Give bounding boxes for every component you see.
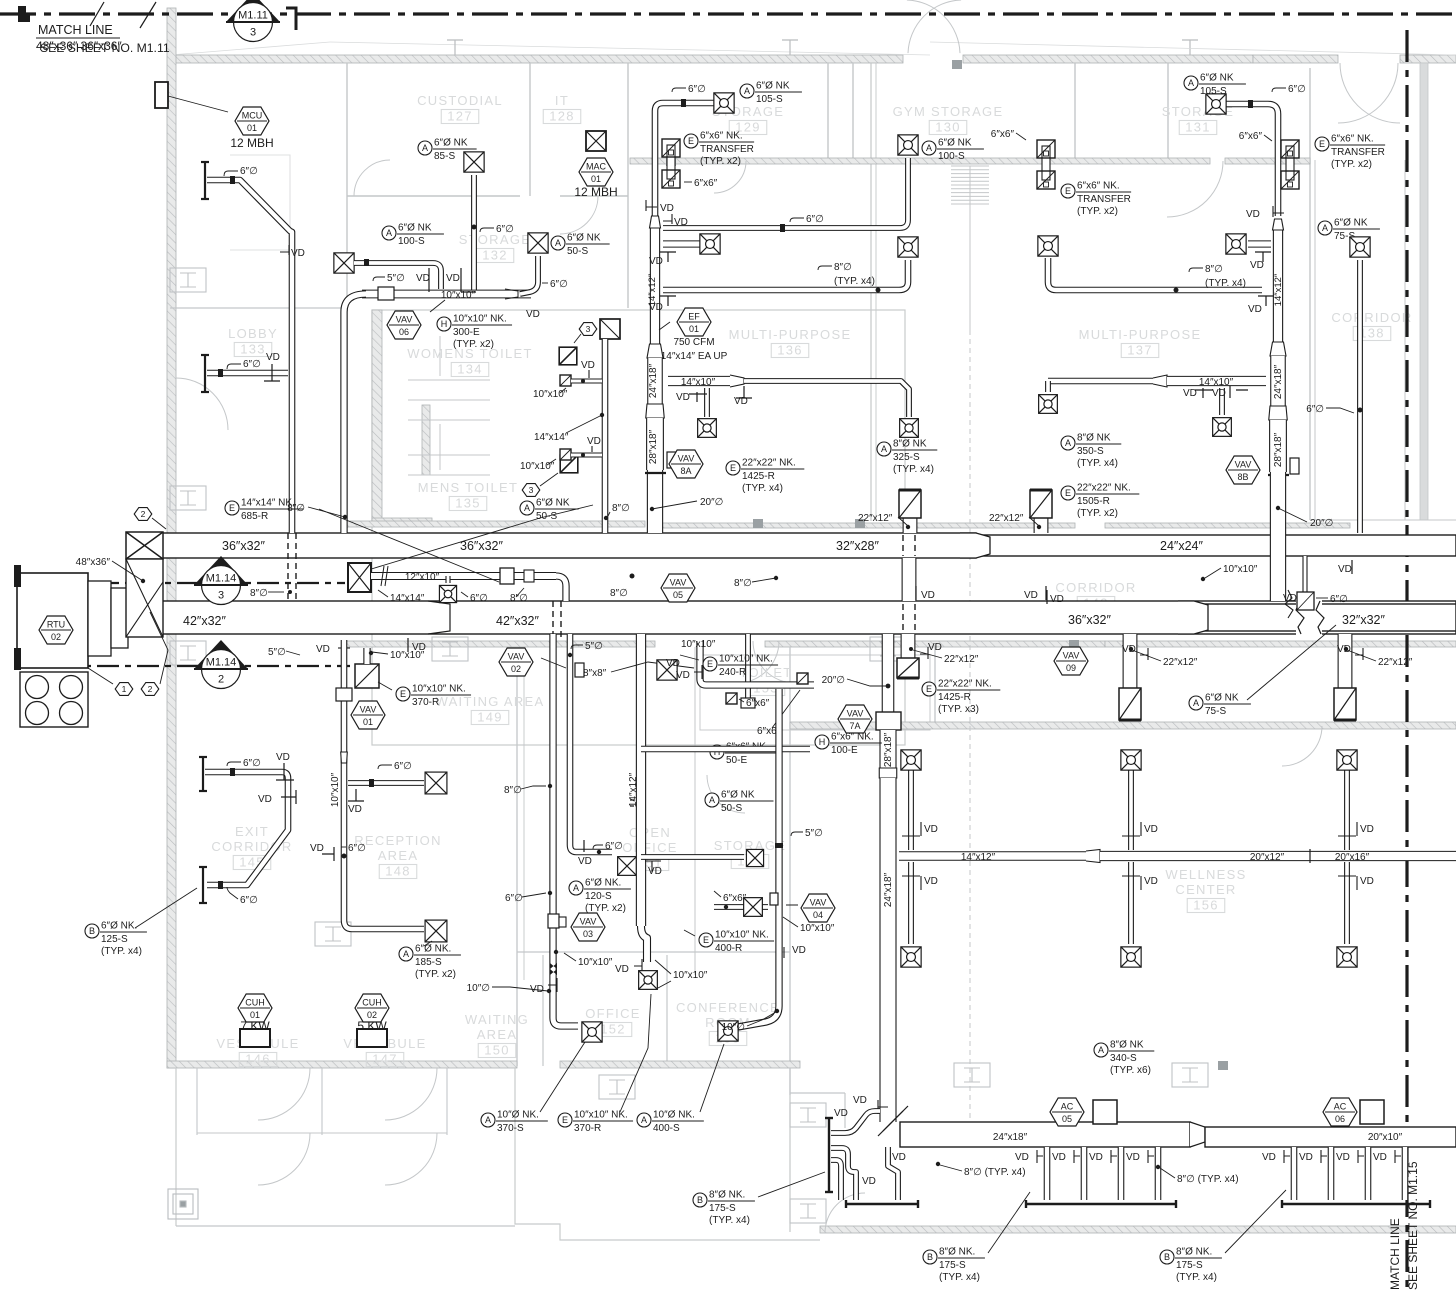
- svg-text:VD: VD: [1024, 590, 1038, 601]
- svg-text:10″∅: 10″∅: [722, 1022, 745, 1033]
- room waiting area 149: [435, 694, 544, 725]
- svg-text:VD: VD: [792, 945, 806, 956]
- svg-text:VD: VD: [666, 658, 680, 669]
- VD cluster c: [862, 1176, 876, 1187]
- svg-text:8″Ø NK: 8″Ø NK: [1110, 1040, 1144, 1051]
- svg-text:VD: VD: [1373, 1152, 1387, 1163]
- svg-text:100-S: 100-S: [398, 236, 425, 247]
- duct 8x8 toilet exhaust: [700, 641, 814, 685]
- hexagon tag VAV 09: [1054, 647, 1088, 675]
- leader E685R: [319, 509, 499, 582]
- svg-text:133: 133: [240, 342, 266, 357]
- transition wellness 1: [876, 712, 901, 730]
- svg-text:134: 134: [457, 362, 483, 377]
- svg-text:350-S: 350-S: [1077, 446, 1104, 457]
- svg-text:131: 131: [1185, 120, 1211, 135]
- svg-text:370-R: 370-R: [412, 697, 439, 708]
- svg-text:E: E: [562, 1115, 568, 1125]
- room vestibule 147: [343, 1036, 426, 1067]
- door arc 131R L: [1338, 63, 1398, 123]
- svg-text:VD: VD: [291, 248, 305, 259]
- hex key 3 mens: [522, 484, 540, 497]
- svg-text:3: 3: [218, 590, 224, 602]
- svg-text:20″∅: 20″∅: [822, 675, 845, 686]
- wall custodial bottom: [347, 195, 520, 197]
- leader 6x6 t2: [772, 690, 800, 728]
- tag E 370R: [396, 684, 471, 709]
- svg-text:VD: VD: [1015, 1152, 1029, 1163]
- tick 6dia storage r: [542, 282, 548, 284]
- roof line 1: [330, 42, 930, 55]
- hex key 2 top: [134, 508, 152, 521]
- svg-text:VD: VD: [258, 794, 272, 805]
- svg-text:22″x12″: 22″x12″: [989, 513, 1024, 524]
- VD mid branch: [649, 252, 676, 267]
- wall office top: [517, 951, 790, 953]
- duct 6in exit corridor: [205, 772, 288, 885]
- svg-text:(TYP. x4): (TYP. x4): [939, 1272, 980, 1283]
- svg-text:128: 128: [549, 109, 575, 124]
- svg-text:8″∅: 8″∅: [250, 588, 268, 599]
- diffuser wellness bottom 2: [1121, 947, 1141, 967]
- svg-text:10″x10″: 10″x10″: [330, 772, 341, 807]
- svg-text:132: 132: [482, 248, 508, 263]
- svg-text:2: 2: [141, 509, 146, 519]
- tick 6dia recep2: [341, 846, 346, 848]
- column I 3: [870, 637, 906, 661]
- fitting waiting: [575, 663, 584, 677]
- svg-text:150: 150: [484, 1043, 510, 1058]
- leader 8dia r: [1160, 1168, 1175, 1178]
- svg-text:42″x32″: 42″x32″: [496, 614, 539, 628]
- transition EF 24x18: [647, 344, 663, 358]
- leader 8dia c: [940, 1165, 962, 1171]
- tag E 370R low: [558, 1110, 633, 1135]
- toilet153 outline: [700, 655, 930, 730]
- tick 10x10 womens: [560, 388, 566, 393]
- svg-text:A: A: [573, 883, 579, 893]
- svg-text:MATCH LINE: MATCH LINE: [38, 23, 113, 37]
- junction dot lobby: [230, 176, 235, 184]
- leader hex3 mens: [540, 473, 558, 486]
- svg-text:VD: VD: [581, 360, 595, 371]
- svg-text:A: A: [524, 503, 530, 513]
- svg-text:22″x12″: 22″x12″: [858, 513, 893, 524]
- tick 6dia recep1: [378, 765, 392, 769]
- svg-text:H: H: [441, 319, 448, 329]
- svg-text:TRANSFER: TRANSFER: [1077, 194, 1131, 205]
- grille 370R: [355, 664, 379, 688]
- svg-text:VD: VD: [446, 273, 460, 284]
- svg-text:M1.14: M1.14: [206, 573, 237, 585]
- svg-text:14″x12″: 14″x12″: [628, 772, 639, 807]
- tick 6dia y228: [790, 218, 804, 222]
- VD storage 2: [446, 268, 476, 292]
- hex key 1: [115, 683, 133, 696]
- svg-text:09: 09: [1066, 663, 1076, 673]
- leader VAV06: [430, 300, 445, 312]
- tag A 350-S: [1061, 433, 1121, 470]
- svg-text:06: 06: [399, 327, 409, 337]
- svg-text:VD: VD: [1212, 388, 1226, 399]
- VD lobby 2: [264, 352, 280, 381]
- diffuser 6in mid: [439, 585, 456, 602]
- match line underline: [36, 37, 120, 39]
- toilet grille small 2: [797, 673, 808, 684]
- hidden duct dash wait1: [552, 601, 554, 640]
- svg-text:135: 135: [455, 496, 481, 511]
- corridor wall upper-3: [1105, 523, 1350, 528]
- junction dot s154: [724, 905, 728, 909]
- svg-text:VD: VD: [1144, 876, 1158, 887]
- roof tick 3: [1182, 40, 1198, 55]
- wall filler 1: [855, 519, 865, 528]
- duct 6in lobby 2: [207, 370, 288, 377]
- slot bar left vertical: [825, 1118, 833, 1192]
- svg-text:VD: VD: [587, 436, 601, 447]
- svg-text:8″Ø NK: 8″Ø NK: [893, 439, 927, 450]
- hidden duct dash lobby2: [295, 533, 297, 601]
- svg-text:24″x24″: 24″x24″: [1160, 539, 1203, 553]
- tag E 1505-R: [1061, 483, 1139, 520]
- svg-text:6″∅: 6″∅: [496, 224, 514, 235]
- svg-text:14″x10″: 14″x10″: [681, 377, 716, 388]
- door arc vest1 out: [258, 1133, 310, 1185]
- svg-text:6″∅: 6″∅: [1306, 404, 1324, 415]
- svg-text:VD: VD: [316, 644, 330, 655]
- VD 136 a: [676, 392, 707, 403]
- svg-text:WELLNESS: WELLNESS: [1165, 867, 1246, 882]
- diffuser wellness top 2: [1121, 750, 1141, 770]
- svg-text:14″x14″ EA UP: 14″x14″ EA UP: [661, 351, 728, 362]
- svg-text:10″x10″: 10″x10″: [681, 639, 716, 650]
- vestibule bottom wall: [197, 1132, 447, 1134]
- corridor wall lower-1: [345, 641, 655, 647]
- svg-text:E: E: [707, 659, 713, 669]
- diffuser 325-S c: [698, 419, 717, 438]
- svg-text:VD: VD: [276, 752, 290, 763]
- svg-text:M1.14: M1.14: [206, 657, 237, 669]
- fitting waiting duct b: [559, 917, 566, 927]
- leader 20dia right: [1276, 506, 1307, 522]
- hidden duct dash midl2: [914, 604, 916, 631]
- hidden duct dash midh2: [914, 535, 916, 556]
- svg-text:WAITING AREA: WAITING AREA: [435, 694, 544, 709]
- svg-text:B: B: [927, 1252, 933, 1262]
- fire damper waiting duct: [550, 963, 557, 975]
- column I 6: [1172, 1063, 1208, 1087]
- wall conference-right-low: [789, 1068, 791, 1232]
- wall custodial/IT: [529, 63, 531, 196]
- svg-text:6″∅: 6″∅: [605, 841, 623, 852]
- tag A 100-S: [382, 223, 444, 248]
- hidden duct dash wait2: [560, 601, 562, 640]
- VD slot r1: [1262, 1150, 1290, 1163]
- svg-text:VD: VD: [1299, 1152, 1313, 1163]
- VD below x1130: [1122, 644, 1148, 660]
- svg-text:42″x32″: 42″x32″: [183, 614, 226, 628]
- svg-text:6″Ø NK: 6″Ø NK: [938, 138, 972, 149]
- duct 12x10 betw trunks: [371, 572, 556, 580]
- VD ductD: [784, 945, 806, 958]
- exhaust grille womens: [559, 347, 577, 365]
- svg-text:137: 137: [1127, 343, 1153, 358]
- svg-text:147: 147: [372, 1052, 398, 1067]
- svg-text:148: 148: [385, 864, 411, 879]
- svg-text:10″x10″ NK.: 10″x10″ NK.: [412, 684, 466, 695]
- svg-text:105-S: 105-S: [1200, 86, 1227, 97]
- svg-text:370-R: 370-R: [574, 1123, 601, 1134]
- svg-text:LOBBY: LOBBY: [228, 326, 278, 341]
- RTU fan circle 4: [60, 702, 83, 725]
- duct slot drop r3: [1365, 1147, 1372, 1200]
- duct cluster 1: [831, 1111, 880, 1133]
- svg-text:240-R: 240-R: [719, 667, 746, 678]
- label tick lobby1: [224, 171, 238, 176]
- VD waiting mid: [578, 840, 592, 867]
- tag A 50S oo: [705, 790, 773, 815]
- tag A 325-S: [877, 439, 937, 476]
- wall waiting/reception: [516, 647, 518, 1066]
- duct cluster 2: [831, 1148, 856, 1200]
- svg-text:VAV: VAV: [810, 898, 827, 908]
- svg-text:OFFICE: OFFICE: [622, 840, 677, 855]
- tag H 100E: [815, 732, 882, 757]
- svg-text:6″x6″: 6″x6″: [723, 893, 747, 904]
- svg-text:05: 05: [1062, 1114, 1072, 1124]
- svg-text:20″∅: 20″∅: [700, 497, 723, 508]
- wall lobby top: [170, 307, 345, 309]
- svg-text:A: A: [555, 238, 561, 248]
- diffuser 350-S a: [1039, 395, 1058, 414]
- slot diffuser bar left: [846, 1200, 918, 1208]
- svg-text:28″x18″: 28″x18″: [648, 429, 659, 464]
- svg-text:32″x32″: 32″x32″: [1342, 613, 1385, 627]
- svg-text:VD: VD: [348, 804, 362, 815]
- room reception area 148: [354, 833, 442, 879]
- tick 8dia mid: [516, 588, 524, 597]
- svg-text:VAV: VAV: [580, 917, 597, 927]
- svg-text:146: 146: [245, 1052, 271, 1067]
- room conference room 155: [676, 1000, 780, 1046]
- leader 10x10 waiting: [564, 953, 576, 961]
- svg-text:VD: VD: [1144, 824, 1158, 835]
- wall openoffice-left: [694, 647, 696, 975]
- svg-text:VAV: VAV: [678, 454, 695, 464]
- RTU corner tick 1: [14, 565, 21, 587]
- VD slot c4: [1126, 1150, 1154, 1163]
- toilet partition 1: [408, 399, 490, 401]
- svg-text:7A: 7A: [849, 721, 860, 731]
- roof tick 1: [447, 40, 463, 55]
- VD oo bottom: [615, 959, 642, 975]
- VD waiting low: [530, 978, 557, 995]
- small grille womens: [560, 375, 571, 386]
- svg-text:VD: VD: [676, 392, 690, 403]
- duct 6in stub x1305: [1302, 556, 1307, 592]
- svg-text:(TYP. x3): (TYP. x3): [938, 704, 979, 715]
- svg-text:75-S: 75-S: [1205, 706, 1226, 717]
- duct 6in lobby riser: [207, 180, 292, 533]
- svg-text:24″x18″: 24″x18″: [993, 1132, 1028, 1143]
- svg-text:6″∅: 6″∅: [550, 279, 568, 290]
- tag A 340S: [1094, 1040, 1154, 1077]
- hexagon tag VAV 02: [499, 648, 533, 676]
- duct break lower trunk: [1296, 600, 1324, 635]
- svg-text:36″x32″: 36″x32″: [1068, 613, 1111, 627]
- riser joint right: [1268, 474, 1289, 476]
- svg-text:105-S: 105-S: [756, 94, 783, 105]
- svg-text:14″x10″: 14″x10″: [1199, 377, 1234, 388]
- svg-text:6″x6″: 6″x6″: [694, 178, 718, 189]
- svg-text:B: B: [697, 1195, 703, 1205]
- svg-text:MULTI-PURPOSE: MULTI-PURPOSE: [1079, 327, 1202, 342]
- svg-text:8″x8″: 8″x8″: [583, 668, 607, 679]
- leader 8dia toilet riser: [608, 512, 610, 516]
- VD above trunk 1: [916, 586, 935, 601]
- column I 8: [170, 268, 206, 292]
- grille 400R: [0, 0, 1, 1]
- svg-text:VD: VD: [862, 1176, 876, 1187]
- diffuser recep 2: [425, 920, 447, 942]
- transition lower trunk: [1178, 601, 1208, 634]
- leader 10dia wait: [492, 987, 548, 991]
- leader 22x12 below x1345: [1347, 650, 1376, 661]
- VD mens: [587, 436, 601, 452]
- junction 8dia dot: [630, 574, 635, 579]
- hexagon tag VAV 05: [661, 574, 695, 602]
- svg-text:125-S: 125-S: [101, 934, 128, 945]
- duct left riser to trunk: [647, 470, 663, 533]
- tag A 120S: [569, 878, 631, 915]
- VD exit 2: [258, 790, 296, 805]
- match flag bracket: [286, 8, 296, 30]
- svg-text:100-S: 100-S: [938, 151, 965, 162]
- svg-text:(TYP. x4): (TYP. x4): [742, 483, 783, 494]
- svg-text:01: 01: [363, 717, 373, 727]
- tag A 100-S gym: [922, 138, 984, 163]
- wall top-3: [1253, 55, 1338, 63]
- svg-text:AC: AC: [1061, 1102, 1074, 1112]
- svg-text:E: E: [703, 935, 709, 945]
- room storage 154: [714, 838, 786, 869]
- svg-text:(TYP. x2): (TYP. x2): [1331, 159, 1372, 170]
- room multi-purpose 136: [729, 327, 852, 358]
- column I 4: [599, 1075, 635, 1099]
- svg-text:VD: VD: [676, 670, 690, 681]
- junction dot y290: [876, 288, 881, 293]
- svg-text:VD: VD: [853, 1095, 867, 1106]
- corridor wall lower-3: [1105, 641, 1456, 647]
- svg-text:1505-R: 1505-R: [1077, 496, 1110, 507]
- corridor138 right wall: [1404, 160, 1406, 520]
- leader A 50-S mid: [368, 505, 593, 570]
- leader B 125S: [135, 888, 197, 928]
- transition wellness run: [1086, 850, 1100, 863]
- svg-text:02: 02: [51, 632, 61, 642]
- svg-text:22″x22″ NK.: 22″x22″ NK.: [938, 679, 992, 690]
- VD ef riser: [646, 200, 674, 214]
- leader 20dia left: [650, 501, 697, 511]
- lobby millwork: [230, 155, 290, 250]
- tag B 175S r: [1160, 1247, 1222, 1284]
- duct elbow 137 left: [1045, 381, 1051, 392]
- sidewall diffuser lobby 2: [201, 355, 209, 392]
- duct wellness col 2 up: [1128, 770, 1134, 850]
- tick 8dia y290: [818, 266, 832, 270]
- leader 22x12 above x910: [898, 517, 908, 526]
- leader 10x10 oo: [655, 960, 671, 988]
- leader hex2 top: [152, 518, 166, 529]
- leader EF01: [659, 322, 670, 330]
- svg-text:6″∅: 6″∅: [1330, 594, 1348, 605]
- duct right riser to trunk: [1270, 472, 1286, 601]
- tag E 1425R x3: [922, 679, 1000, 716]
- svg-text:A: A: [926, 143, 932, 153]
- diffuser oo bottom: [639, 971, 658, 990]
- svg-text:A: A: [1098, 1045, 1104, 1055]
- svg-text:(TYP. x2): (TYP. x2): [1077, 206, 1118, 217]
- duct 6in corridor drop: [1357, 260, 1363, 533]
- vestibule right wall: [446, 1068, 448, 1135]
- junction dot ductD1: [775, 843, 783, 848]
- toilet wall mid hatch: [372, 518, 432, 526]
- room mens toilet 135: [418, 480, 519, 511]
- duct 6in drop to run: [520, 256, 538, 294]
- tag A 105-S right: [1184, 73, 1246, 98]
- svg-text:CORRIDOR: CORRIDOR: [1331, 310, 1412, 325]
- duct 6in recep branch: [348, 780, 424, 786]
- sidewall diffuser exit 1: [199, 757, 207, 791]
- duct jog open office: [641, 926, 647, 962]
- corridor wall upper-1: [345, 521, 645, 527]
- duct 6in right riser top: [1226, 104, 1278, 216]
- wall filler 0: [666, 157, 676, 166]
- sidewall diffuser lobby 1: [201, 162, 209, 199]
- transfer grille pair left: [662, 139, 680, 188]
- junction dot womens: [581, 379, 585, 383]
- duct 10in waiting drop: [553, 634, 578, 1026]
- tick 5dia: [373, 277, 385, 281]
- svg-text:24″x18″: 24″x18″: [883, 872, 894, 907]
- tag E transfer mid: [1061, 181, 1131, 218]
- svg-text:6″x6″ NK.: 6″x6″ NK.: [1331, 134, 1374, 145]
- svg-text:OFFICE: OFFICE: [585, 1006, 640, 1021]
- leader MCU: [168, 96, 228, 112]
- VD 137 a: [1183, 388, 1213, 399]
- svg-text:8″∅: 8″∅: [834, 262, 852, 273]
- tag A 105-S left: [740, 81, 802, 106]
- junction dot exit2: [218, 881, 223, 889]
- duct 10x10 womens branch: [571, 378, 602, 383]
- corridor wall lower-2: [765, 641, 1105, 647]
- toilet partition 2: [408, 419, 490, 421]
- leader 6x6 t1: [739, 699, 744, 702]
- svg-text:VD: VD: [648, 866, 662, 877]
- svg-text:5″∅: 5″∅: [805, 828, 823, 839]
- duct branch right mid diffuser: [1248, 240, 1271, 247]
- VD wellness 2b: [1122, 876, 1158, 890]
- duct 8in run 136 right: [744, 381, 909, 417]
- door arc gym L: [907, 0, 960, 53]
- svg-text:MATCH LINE: MATCH LINE: [1388, 1218, 1402, 1290]
- match line corner glyph: [18, 6, 30, 22]
- tag A 50-S mid: [520, 498, 579, 523]
- leader 22x12 x908: [913, 650, 942, 658]
- hex key 2: [141, 683, 159, 696]
- svg-text:VD: VD: [412, 642, 426, 653]
- tag B 175S c: [923, 1247, 985, 1284]
